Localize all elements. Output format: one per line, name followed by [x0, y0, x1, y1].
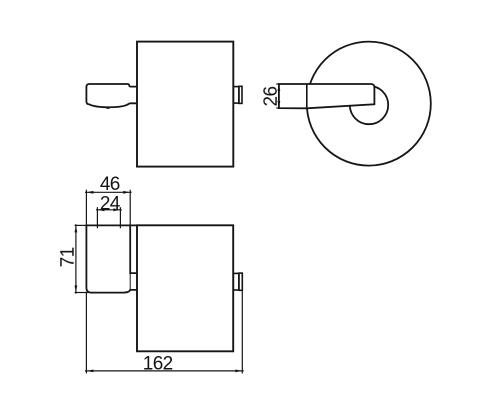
- dimension 162: [85, 290, 244, 373]
- top view arm: [86, 84, 136, 107]
- front view arm outer outline: [86, 225, 136, 292]
- front view spindle pin inner: [233, 273, 239, 290]
- svg-text:46: 46: [100, 174, 120, 195]
- top view spindle pin inner: [233, 87, 239, 104]
- svg-text:24: 24: [100, 194, 121, 215]
- side view arm: [279, 84, 375, 108]
- top view arm notch: [106, 107, 111, 108]
- front view neck left edge: [129, 273, 131, 290]
- side view roll core circle: [350, 86, 388, 124]
- dimension 26: [276, 84, 280, 108]
- front view spindle pin outer: [239, 273, 242, 290]
- front view arm inner edge and neck top: [130, 225, 136, 273]
- svg-text:26: 26: [261, 87, 282, 107]
- side view plate edge line: [306, 84, 308, 108]
- front view body: [137, 225, 233, 351]
- top view body: [137, 42, 233, 167]
- dimension 24: [96, 207, 122, 228]
- side view roll circle: [307, 42, 431, 166]
- top view spindle pin outer: [239, 86, 242, 103]
- dimension 71: [75, 224, 89, 294]
- svg-text:162: 162: [143, 354, 173, 375]
- dimension 46: [85, 190, 132, 226]
- svg-text:71: 71: [58, 247, 79, 267]
